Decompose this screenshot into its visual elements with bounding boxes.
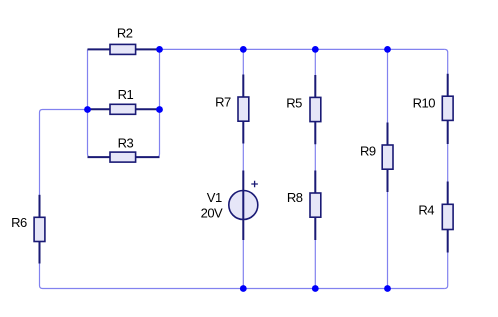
svg-text:R9: R9 bbox=[360, 144, 376, 159]
node bottom bus / R8 junction bbox=[312, 285, 319, 292]
svg-text:R4: R4 bbox=[418, 203, 434, 218]
svg-text:R7: R7 bbox=[215, 95, 231, 110]
wire right branch bbox=[445, 49, 448, 288]
svg-text:R10: R10 bbox=[413, 96, 436, 111]
node top bus / R9 junction bbox=[384, 46, 391, 53]
node top bus / R7 junction bbox=[240, 46, 247, 53]
resistor R5 bbox=[310, 75, 321, 144]
resistor R7 bbox=[238, 75, 249, 144]
node top bus / R2 junction bbox=[156, 46, 163, 53]
wire R5/R8 branch bbox=[314, 49, 316, 288]
wire bottom bus bbox=[43, 288, 445, 290]
voltage source V1 bbox=[229, 171, 258, 241]
wire R9 branch bbox=[387, 49, 389, 288]
resistor R9 bbox=[382, 123, 393, 193]
svg-text:R2: R2 bbox=[117, 25, 133, 40]
svg-text:R6: R6 bbox=[11, 215, 27, 230]
node R1 right junction bbox=[156, 106, 163, 113]
svg-text:20V: 20V bbox=[201, 205, 223, 220]
resistor R10 bbox=[442, 74, 453, 144]
wire V1/R7 branch bbox=[242, 49, 244, 288]
node top bus / R5 junction bbox=[312, 46, 319, 53]
node R1 left junction bbox=[84, 106, 91, 113]
resistor R1 bbox=[88, 104, 160, 114]
svg-text:R5: R5 bbox=[286, 96, 302, 111]
node bottom bus / R9 junction bbox=[384, 285, 391, 292]
wire parallel-block left vertical bbox=[88, 49, 91, 157]
svg-text:R3: R3 bbox=[118, 135, 134, 150]
wire top bus bbox=[160, 48, 445, 50]
resistor R6 bbox=[34, 195, 45, 264]
resistor R4 bbox=[442, 182, 453, 253]
svg-text:V1: V1 bbox=[207, 190, 222, 205]
resistor R8 bbox=[310, 171, 321, 241]
node bottom bus / V1 junction bbox=[240, 285, 247, 292]
svg-text:R8: R8 bbox=[287, 190, 303, 205]
wire left branch bbox=[40, 110, 88, 289]
svg-text:R1: R1 bbox=[118, 87, 134, 102]
resistor R3 bbox=[88, 152, 160, 162]
wire parallel-block right vertical bbox=[157, 49, 160, 157]
resistor R2 bbox=[88, 44, 160, 54]
